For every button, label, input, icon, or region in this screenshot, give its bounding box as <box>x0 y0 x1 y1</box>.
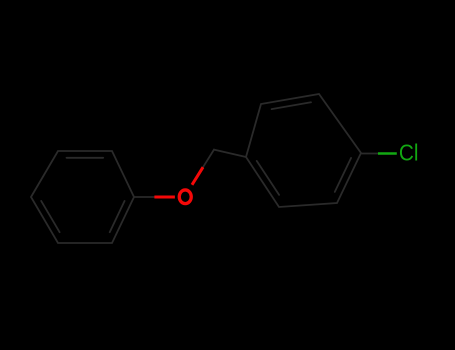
svg-text:Cl: Cl <box>399 140 419 166</box>
